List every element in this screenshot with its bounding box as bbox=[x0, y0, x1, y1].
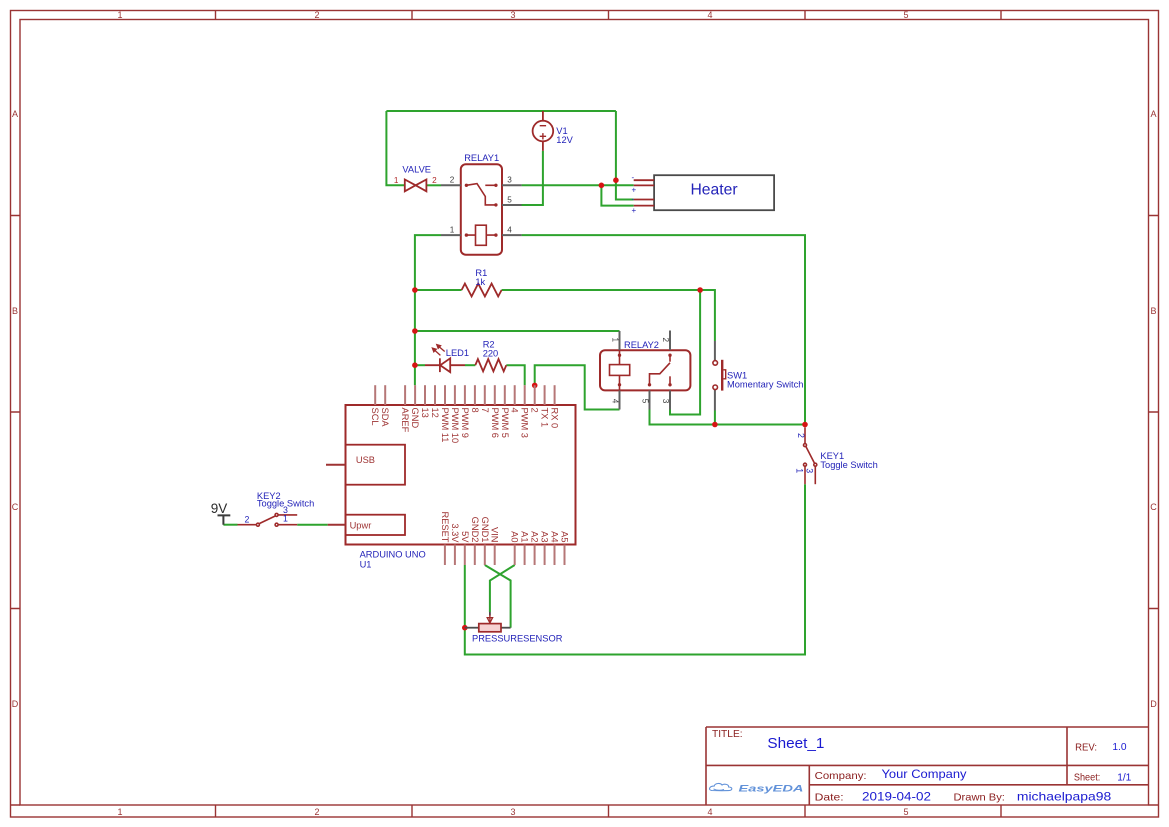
switch KEY1 toggle bbox=[804, 427, 817, 484]
valve VALVE bbox=[405, 180, 427, 192]
svg-text:5: 5 bbox=[903, 10, 908, 20]
relay1 coil bbox=[466, 225, 496, 245]
wire arduino 5V down to sensor left bbox=[464, 565, 466, 628]
svg-text:Drawn By:: Drawn By: bbox=[954, 793, 1005, 804]
node heater pin1 junction bbox=[613, 177, 619, 183]
svg-text:RX 0: RX 0 bbox=[550, 408, 560, 429]
wire arduino pin2 to relay2 pin4 bbox=[535, 365, 620, 409]
svg-text:1: 1 bbox=[117, 10, 122, 20]
svg-text:12: 12 bbox=[430, 408, 440, 418]
ic U1 ARDUINO UNO body bbox=[346, 405, 576, 545]
wire KEY2 pin1 to Upwr bbox=[297, 524, 328, 526]
svg-text:220: 220 bbox=[483, 348, 499, 358]
resistor R2 bbox=[475, 359, 506, 371]
wire relay1 pin1 to left vertical down to arduino GND bbox=[415, 235, 441, 385]
wire R1 left lead bbox=[415, 289, 462, 291]
svg-text:GND1: GND1 bbox=[480, 517, 490, 543]
frame column numbers bottom bbox=[117, 807, 908, 817]
frame row letters bbox=[12, 109, 1158, 709]
heater box bbox=[654, 175, 774, 210]
wire X cross A0 to wiper bbox=[490, 565, 515, 612]
svg-text:PWM 5: PWM 5 bbox=[500, 408, 510, 438]
svg-text:TITLE:: TITLE: bbox=[712, 729, 743, 740]
svg-text:Toggle Switch: Toggle Switch bbox=[820, 460, 877, 470]
svg-text:5V: 5V bbox=[460, 531, 470, 543]
svg-text:SDA: SDA bbox=[380, 408, 390, 428]
node R1 left junction bbox=[412, 287, 418, 293]
wire R2 to arduino pin3 bbox=[506, 365, 524, 385]
pin 3 relay1 bbox=[502, 176, 522, 186]
svg-text:REV:: REV: bbox=[1075, 742, 1097, 753]
svg-text:Upwr: Upwr bbox=[350, 520, 372, 530]
svg-text:A4: A4 bbox=[550, 531, 560, 542]
switch SW1 momentary bbox=[714, 341, 716, 361]
pin 2 relay1 bbox=[441, 176, 461, 186]
svg-text:2: 2 bbox=[796, 433, 806, 438]
wire LED row left bbox=[415, 364, 425, 366]
node arduino pin2 junction bbox=[532, 383, 538, 389]
svg-text:A0: A0 bbox=[510, 531, 520, 542]
svg-text:7: 7 bbox=[480, 408, 490, 413]
svg-text:B: B bbox=[1150, 306, 1156, 316]
svg-text:2: 2 bbox=[450, 176, 455, 185]
resistor R1 bbox=[462, 284, 502, 297]
svg-text:EasyEDA: EasyEDA bbox=[739, 783, 804, 793]
svg-text:5: 5 bbox=[640, 399, 649, 404]
svg-text:12V: 12V bbox=[556, 135, 573, 145]
node R1 right junction bbox=[697, 287, 703, 293]
svg-text:C: C bbox=[12, 502, 19, 512]
svg-text:USB: USB bbox=[356, 455, 375, 465]
wire R1 right to SW1 top bbox=[502, 290, 715, 341]
relay1 switch contacts bbox=[466, 184, 496, 205]
svg-text:2: 2 bbox=[661, 338, 670, 343]
svg-text:13: 13 bbox=[420, 408, 430, 418]
svg-text:PWM 10: PWM 10 bbox=[450, 408, 460, 444]
svg-text:+: + bbox=[632, 186, 637, 195]
svg-text:PWM 9: PWM 9 bbox=[460, 408, 470, 438]
svg-text:D: D bbox=[12, 699, 19, 709]
led LED1 bbox=[425, 358, 465, 372]
heater pin stubs bbox=[634, 180, 654, 205]
pin 5 relay1 bbox=[502, 195, 522, 205]
pin upwr stub bbox=[328, 524, 346, 526]
arduino top pin stubs bbox=[375, 385, 554, 405]
relay RELAY2 body bbox=[600, 350, 690, 390]
svg-text:VALVE: VALVE bbox=[402, 164, 431, 174]
svg-text:4: 4 bbox=[510, 408, 520, 413]
node heater pin4 junction bbox=[599, 183, 605, 189]
wire top loop horizontal bbox=[386, 110, 616, 112]
svg-text:8: 8 bbox=[470, 408, 480, 413]
svg-text:B: B bbox=[12, 306, 18, 316]
svg-text:1k: 1k bbox=[475, 277, 485, 287]
pin 1 relay1 bbox=[441, 225, 461, 235]
voltage source V1 bbox=[533, 111, 554, 151]
svg-text:RELAY2: RELAY2 bbox=[624, 340, 659, 350]
wire relay1 pin3 row to heater pin2 bbox=[522, 184, 634, 186]
svg-text:PWM 11: PWM 11 bbox=[440, 408, 450, 443]
svg-text:Heater: Heater bbox=[690, 181, 737, 198]
wire heater pin1 branch bbox=[616, 111, 634, 200]
svg-text:3: 3 bbox=[510, 807, 515, 817]
wire KEY2 9V lead bbox=[223, 524, 237, 526]
svg-text:A3: A3 bbox=[540, 531, 550, 542]
svg-text:4: 4 bbox=[507, 225, 512, 234]
pin usb stub bbox=[326, 464, 346, 466]
svg-text:1/1: 1/1 bbox=[1117, 772, 1131, 783]
relay2 coil bbox=[610, 350, 630, 390]
arduino bottom pin names bbox=[440, 512, 570, 544]
svg-text:2019-04-02: 2019-04-02 bbox=[862, 789, 931, 803]
svg-text:D: D bbox=[1150, 699, 1157, 709]
svg-text:3.3V: 3.3V bbox=[450, 523, 460, 543]
arduino top pin names bbox=[370, 408, 559, 444]
svg-text:LED1: LED1 bbox=[446, 348, 469, 358]
svg-text:1: 1 bbox=[450, 225, 455, 234]
wire heater pin4 branch bbox=[601, 185, 633, 205]
svg-text:3: 3 bbox=[661, 399, 670, 404]
svg-text:4: 4 bbox=[610, 399, 619, 404]
frame column numbers top bbox=[117, 10, 908, 20]
svg-text:5: 5 bbox=[507, 195, 512, 204]
svg-text:2: 2 bbox=[245, 515, 250, 525]
svg-text:RESET: RESET bbox=[440, 512, 450, 543]
svg-text:Sheet_1: Sheet_1 bbox=[767, 735, 824, 752]
svg-text:-: - bbox=[632, 195, 635, 204]
svg-text:SCL: SCL bbox=[370, 408, 380, 426]
wire valve to relay1 pin2 bbox=[426, 184, 441, 186]
wire LED to R2 bbox=[465, 364, 475, 366]
svg-text:2: 2 bbox=[530, 408, 540, 413]
svg-text:1: 1 bbox=[394, 176, 399, 185]
svg-text:3: 3 bbox=[510, 10, 515, 20]
wire X cross GND1 to sensor right bbox=[485, 565, 511, 628]
svg-text:3: 3 bbox=[804, 468, 814, 473]
pin 4 relay1 bbox=[502, 225, 522, 235]
svg-text:5: 5 bbox=[903, 807, 908, 817]
svg-text:Toggle Switch: Toggle Switch bbox=[257, 499, 314, 509]
svg-text:PWM 6: PWM 6 bbox=[490, 408, 500, 438]
wire relay2 pin1 row bbox=[415, 330, 620, 332]
svg-text:A5: A5 bbox=[560, 531, 570, 542]
svg-text:1.0: 1.0 bbox=[1112, 742, 1126, 753]
upwr box bbox=[346, 515, 406, 535]
svg-text:PWM 3: PWM 3 bbox=[520, 408, 530, 438]
wire relay2 pin5 down to SW1/KEY1 row bbox=[650, 410, 806, 425]
svg-text:1: 1 bbox=[610, 338, 619, 343]
svg-text:-: - bbox=[632, 173, 635, 182]
pin 1 relay2 bbox=[610, 331, 619, 350]
svg-text:GND: GND bbox=[410, 408, 420, 429]
svg-text:2: 2 bbox=[432, 176, 437, 185]
svg-text:1: 1 bbox=[117, 807, 122, 817]
heater polarity marks bbox=[632, 173, 637, 215]
wire V1 bottom to relay1 pin5 bbox=[520, 151, 543, 205]
svg-text:A: A bbox=[1150, 109, 1156, 119]
pin 4 relay2 bbox=[610, 390, 619, 409]
wire relay2 pin3 down right and up to R1 row bbox=[670, 290, 700, 415]
svg-text:ARDUINO UNO: ARDUINO UNO bbox=[360, 549, 426, 559]
pin 3 relay2 bbox=[661, 390, 670, 409]
svg-text:GND2: GND2 bbox=[470, 517, 480, 543]
svg-text:4: 4 bbox=[707, 10, 712, 20]
svg-text:2: 2 bbox=[314, 807, 319, 817]
pin 2 relay2 bbox=[661, 331, 670, 351]
led arrows bbox=[432, 345, 444, 356]
svg-text:9V: 9V bbox=[211, 501, 228, 516]
svg-text:AREF: AREF bbox=[400, 408, 410, 433]
wire relay1 pin4 to right vertical down to KEY1 bbox=[522, 235, 805, 424]
svg-text:4: 4 bbox=[707, 807, 712, 817]
svg-text:RELAY1: RELAY1 bbox=[464, 153, 499, 163]
logo EasyEDA bbox=[709, 783, 803, 793]
svg-text:Company:: Company: bbox=[815, 771, 867, 782]
potentiometer PRESSURESENSOR bbox=[465, 612, 511, 632]
relay U RELAY1 body bbox=[461, 164, 502, 254]
svg-text:VIN: VIN bbox=[490, 527, 500, 543]
svg-text:TX 1: TX 1 bbox=[540, 408, 550, 428]
svg-text:A2: A2 bbox=[530, 531, 540, 542]
node LED row junction bbox=[412, 362, 418, 368]
svg-text:Your Company: Your Company bbox=[882, 767, 967, 781]
switch KEY2 toggle bbox=[238, 513, 298, 526]
svg-text:1: 1 bbox=[795, 468, 805, 473]
wire SW1 bottom to row bbox=[714, 411, 716, 425]
node SW1 bottom junction bbox=[712, 422, 718, 428]
svg-text:Sheet:: Sheet: bbox=[1074, 772, 1100, 783]
svg-text:3: 3 bbox=[507, 176, 512, 185]
svg-text:+: + bbox=[632, 206, 637, 215]
title block borders bbox=[706, 727, 1149, 805]
node KEY1 top junction bbox=[802, 422, 808, 428]
node sensor left junction bbox=[462, 625, 468, 631]
svg-text:U1: U1 bbox=[360, 559, 372, 569]
node relay2 pin1 row junction bbox=[412, 328, 418, 334]
svg-text:2: 2 bbox=[314, 10, 319, 20]
svg-text:A: A bbox=[12, 109, 18, 119]
relay2 switch contacts bbox=[650, 355, 671, 385]
usb box bbox=[346, 445, 406, 485]
svg-text:PRESSURESENSOR: PRESSURESENSOR bbox=[472, 633, 563, 643]
svg-text:C: C bbox=[1150, 502, 1157, 512]
arduino bottom pin stubs bbox=[445, 545, 565, 566]
wire KEY1 pin1 down bottom loop to sensor bbox=[465, 484, 805, 654]
svg-text:Momentary Switch: Momentary Switch bbox=[727, 380, 803, 390]
svg-text:1: 1 bbox=[283, 514, 288, 524]
netflag 9V bbox=[211, 501, 231, 525]
wire left loop vertical to valve bbox=[386, 111, 404, 185]
pin 5 relay2 bbox=[640, 390, 649, 409]
svg-text:michaelpapa98: michaelpapa98 bbox=[1017, 789, 1112, 803]
svg-text:Date:: Date: bbox=[815, 793, 844, 804]
svg-text:A1: A1 bbox=[520, 531, 530, 542]
